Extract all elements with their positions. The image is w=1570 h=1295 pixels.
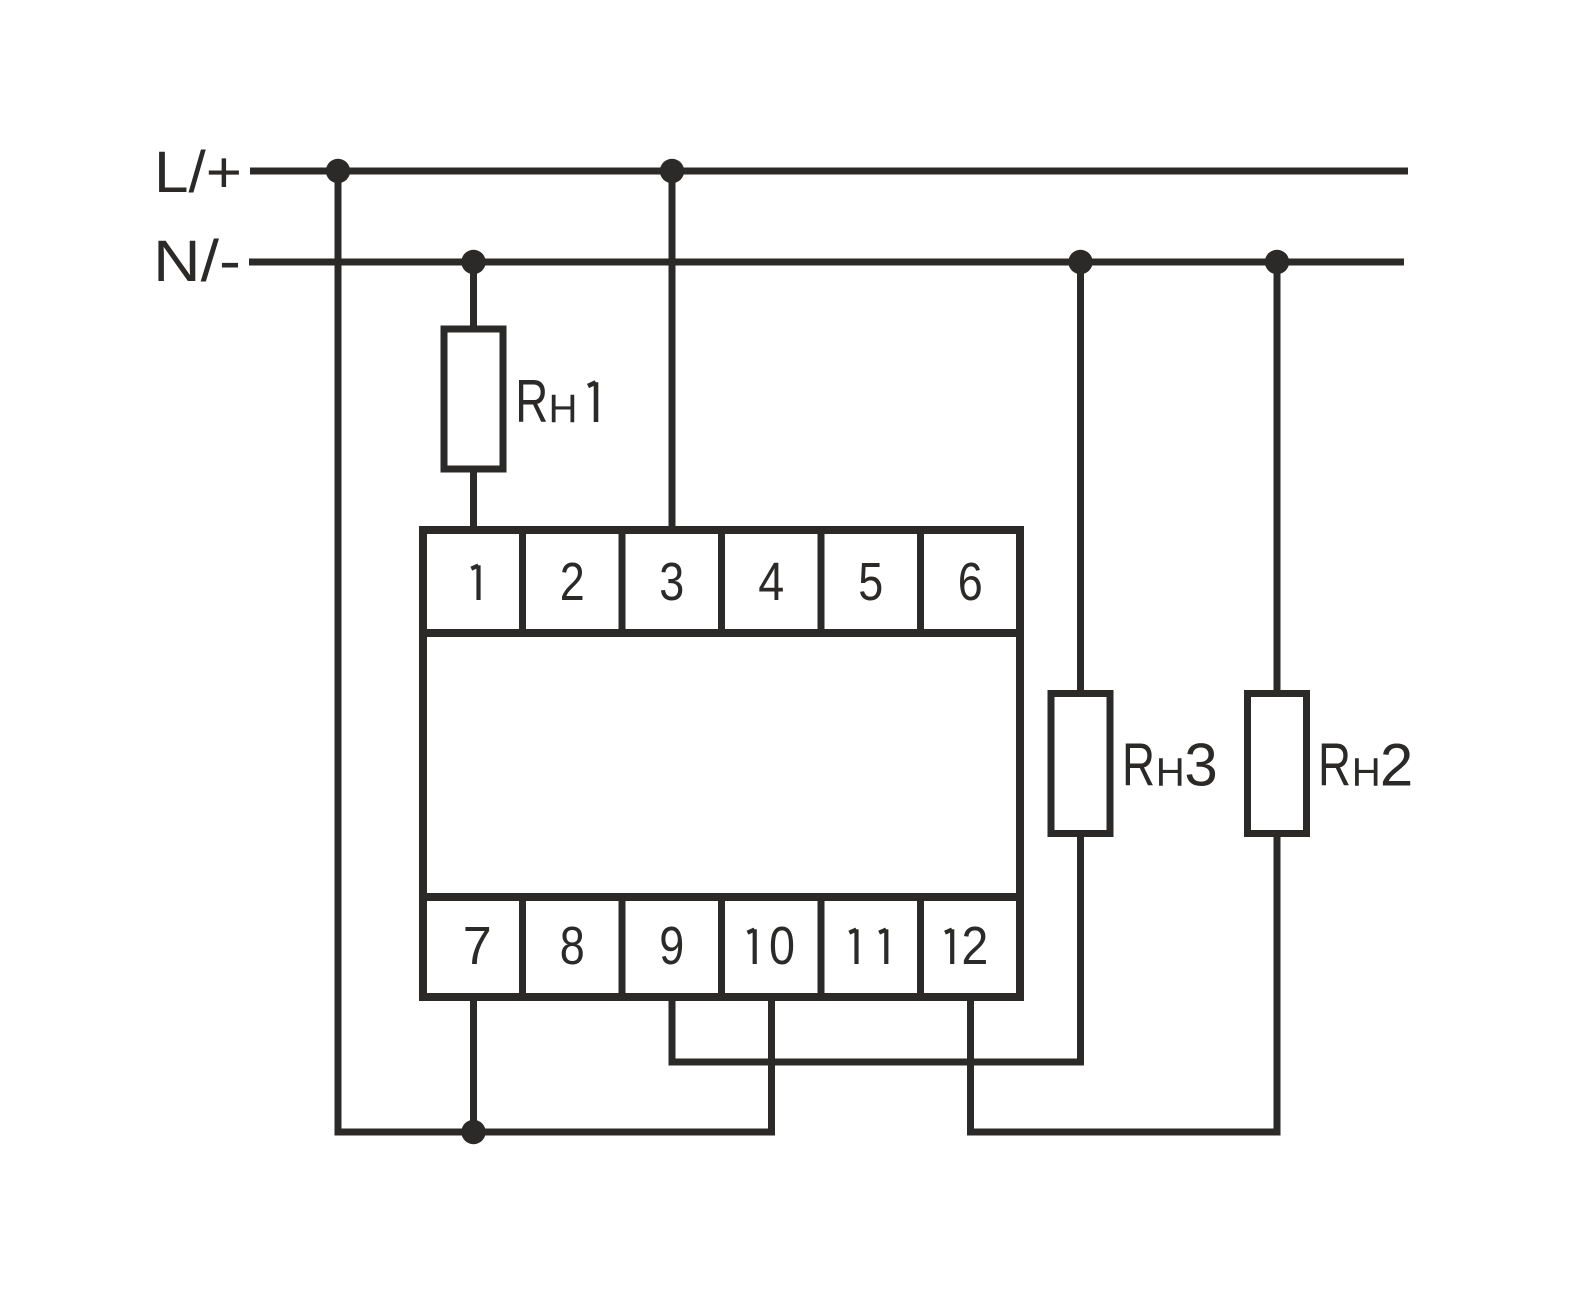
net N/- bus wire bbox=[249, 259, 1404, 266]
svg-text:H: H bbox=[1156, 751, 1185, 795]
junction on N/- at RH2 wire bbox=[1265, 250, 1289, 274]
terminal 11 label bbox=[854, 929, 858, 964]
svg-text:4: 4 bbox=[758, 552, 784, 612]
svg-text:2: 2 bbox=[560, 552, 585, 612]
terminal divider 7|8 bbox=[519, 897, 526, 997]
resistor RH3 bbox=[1051, 694, 1110, 834]
svg-text:R: R bbox=[515, 368, 548, 435]
wire N/- bus to resistor RH1 bbox=[470, 262, 477, 329]
svg-text:H: H bbox=[1352, 751, 1381, 795]
wire L drop from L/+ bus down, along bottom to terminal 10 bbox=[338, 171, 772, 1132]
terminal 1 label bbox=[476, 565, 480, 600]
terminal divider 3|4 bbox=[718, 530, 725, 633]
net L/+ bus wire bbox=[250, 168, 1408, 175]
terminal divider 4|5 bbox=[818, 530, 825, 633]
svg-text:7: 7 bbox=[463, 916, 492, 976]
value label RH3 bbox=[1122, 732, 1218, 799]
svg-text:2: 2 bbox=[961, 916, 988, 976]
terminal divider 1|2 bbox=[519, 530, 526, 633]
junction on N/- at RH3 wire bbox=[1068, 250, 1092, 274]
junction on L/+ at terminal 3 wire bbox=[660, 159, 684, 183]
terminal block body bbox=[423, 530, 1020, 997]
wire N/- bus to resistor RH2 top bbox=[1274, 262, 1281, 697]
svg-text:R: R bbox=[1122, 732, 1155, 799]
svg-text:6: 6 bbox=[958, 552, 983, 612]
wire N/- bus to resistor RH3 top bbox=[1077, 262, 1084, 697]
terminal divider 10|11 bbox=[818, 897, 825, 997]
svg-text:L/+: L/+ bbox=[154, 140, 242, 205]
svg-text:9: 9 bbox=[659, 916, 684, 976]
resistor RH2 bbox=[1248, 694, 1307, 834]
svg-text:3: 3 bbox=[659, 552, 684, 612]
terminal 10 label bbox=[753, 929, 757, 964]
wire terminal 9 to resistor RH3 bottom bbox=[672, 833, 1081, 1062]
terminal divider 5|6 bbox=[917, 530, 924, 633]
svg-text:0: 0 bbox=[769, 916, 795, 976]
wire resistor RH1 to terminal 1 bbox=[470, 469, 477, 530]
value label RH2 bbox=[1318, 732, 1413, 799]
junction on L/+ at left drop bbox=[326, 159, 350, 183]
svg-text:R: R bbox=[1318, 732, 1351, 799]
terminal divider 8|9 bbox=[619, 897, 626, 997]
value label RH1 bbox=[515, 368, 596, 435]
junction on bottom run at terminal 7 wire bbox=[461, 1120, 485, 1144]
junction on N/- at RH1 wire bbox=[461, 250, 485, 274]
svg-text:N/-: N/- bbox=[153, 229, 241, 294]
svg-text:3: 3 bbox=[1184, 732, 1217, 799]
terminal divider 2|3 bbox=[619, 530, 626, 633]
resistor RH1 bbox=[444, 329, 503, 469]
svg-text:H: H bbox=[549, 387, 578, 431]
wire L/+ bus to terminal 3 bbox=[669, 171, 676, 529]
wire terminal 12 to resistor RH2 bottom bbox=[971, 833, 1278, 1132]
svg-text:8: 8 bbox=[560, 916, 585, 976]
terminal divider 11|12 bbox=[917, 897, 924, 997]
wire terminal 7 to bottom run bbox=[470, 997, 477, 1132]
svg-text:2: 2 bbox=[1380, 732, 1413, 799]
terminal divider 9|10 bbox=[718, 897, 725, 997]
terminal 12 label bbox=[950, 929, 954, 964]
svg-text:5: 5 bbox=[858, 552, 883, 612]
